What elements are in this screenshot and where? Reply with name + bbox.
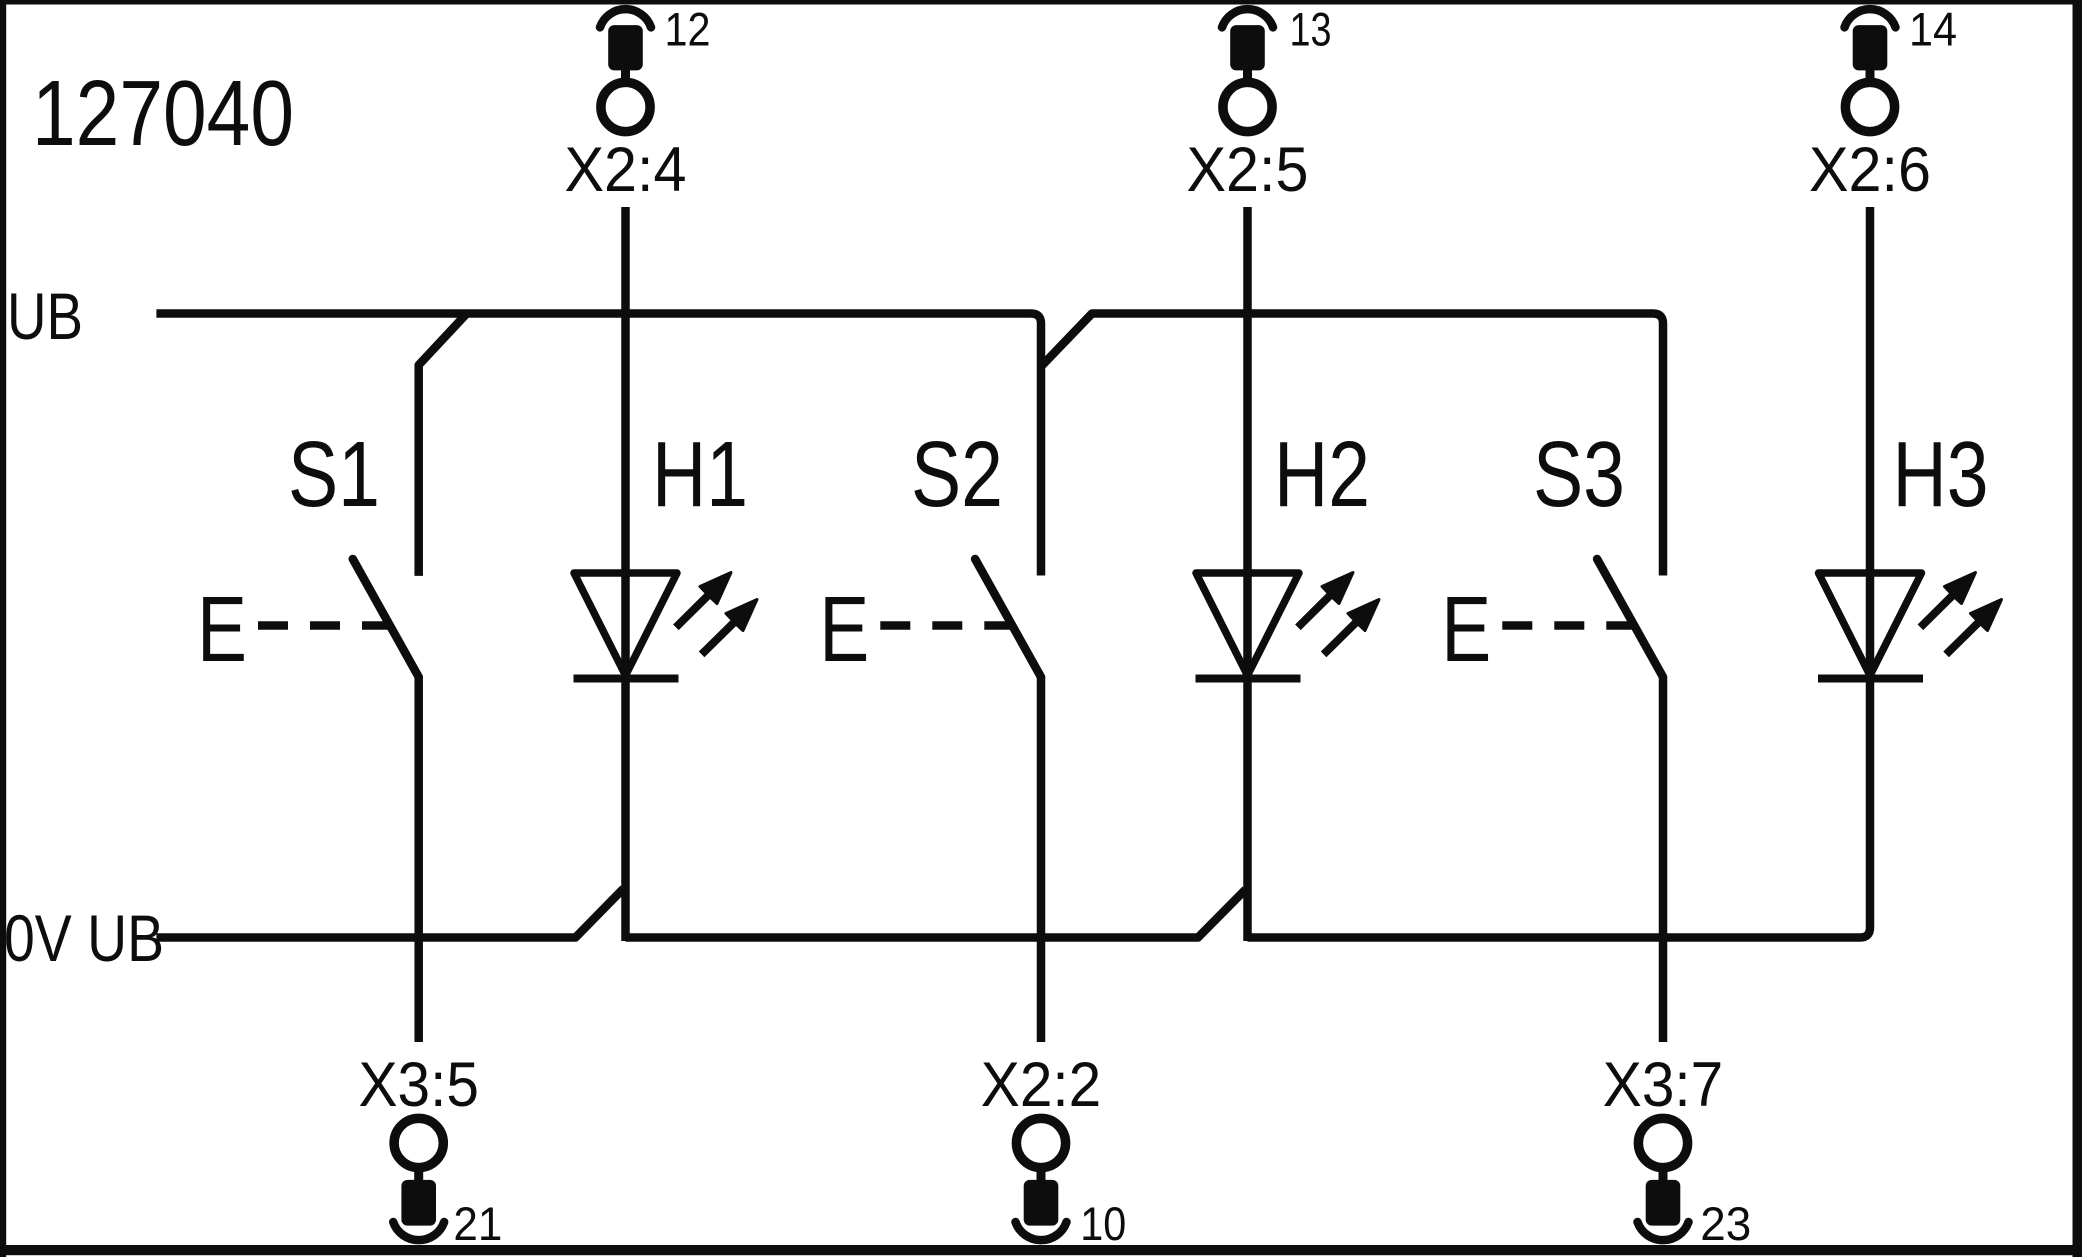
actuator E dashed line S2 bbox=[880, 621, 1011, 630]
svg-text:H1: H1 bbox=[652, 422, 748, 526]
LED H3 bbox=[1818, 573, 2002, 679]
svg-text:23: 23 bbox=[1700, 1197, 1751, 1250]
svg-text:E: E bbox=[819, 577, 869, 681]
svg-text:X2:4: X2:4 bbox=[565, 135, 687, 205]
svg-text:X3:5: X3:5 bbox=[358, 1050, 479, 1120]
terminal X2:5 top bbox=[1222, 9, 1273, 131]
actuator E dashed line S3 bbox=[1502, 621, 1633, 630]
svg-text:X3:7: X3:7 bbox=[1603, 1050, 1724, 1120]
svg-text:H3: H3 bbox=[1893, 422, 1989, 526]
svg-text:12: 12 bbox=[665, 3, 711, 56]
wire S3 to X3:7 bbox=[1659, 677, 1668, 1042]
svg-text:0V UB: 0V UB bbox=[4, 901, 164, 975]
wire 0V rail segment 1 and jog to H1 bbox=[156, 889, 623, 938]
svg-text:UB: UB bbox=[7, 279, 83, 353]
svg-text:E: E bbox=[197, 577, 247, 681]
svg-text:127040: 127040 bbox=[32, 61, 294, 165]
wire S2 to X2:2 bbox=[1037, 677, 1046, 1042]
wire S1 to X3:5 bbox=[414, 677, 423, 1042]
switch S3 bbox=[1597, 559, 1663, 677]
svg-text:E: E bbox=[1441, 577, 1491, 681]
actuator E dashed line S1 bbox=[258, 621, 389, 630]
LED H2 bbox=[1196, 573, 1380, 679]
terminal X2:4 top bbox=[600, 9, 651, 131]
svg-text:X2:2: X2:2 bbox=[981, 1050, 1102, 1120]
svg-text:S3: S3 bbox=[1533, 422, 1625, 526]
svg-text:10: 10 bbox=[1080, 1197, 1126, 1250]
switch S2 bbox=[975, 559, 1041, 677]
svg-text:X2:5: X2:5 bbox=[1187, 135, 1309, 205]
wire UB rail segment 1 to S2 bbox=[156, 314, 1041, 576]
wire H1 column X2:4 to 0V bbox=[621, 207, 630, 941]
svg-text:S2: S2 bbox=[911, 422, 1003, 526]
svg-text:21: 21 bbox=[453, 1197, 502, 1250]
wire H3 column and 0V rail segment 3 bbox=[1248, 207, 1871, 938]
wire 0V rail segment 2 and jog to H2 bbox=[626, 890, 1246, 938]
terminal X3:7 bottom bbox=[1638, 1118, 1689, 1240]
terminal X2:6 top bbox=[1845, 9, 1896, 131]
svg-text:14: 14 bbox=[1909, 3, 1957, 56]
wire H2 column X2:5 to 0V bbox=[1243, 207, 1252, 941]
switch S1 bbox=[353, 559, 419, 677]
svg-text:X2:6: X2:6 bbox=[1809, 135, 1931, 205]
svg-text:H2: H2 bbox=[1274, 422, 1370, 526]
terminal X3:5 bottom bbox=[393, 1118, 444, 1240]
svg-text:13: 13 bbox=[1290, 3, 1332, 56]
svg-text:S1: S1 bbox=[288, 422, 380, 526]
terminal X2:2 bottom bbox=[1016, 1118, 1067, 1240]
wire jog UB to S1 bbox=[419, 314, 467, 576]
wire jog S2 to UB rail segment 2 and S3 bbox=[1041, 314, 1663, 576]
LED H1 bbox=[574, 573, 758, 679]
